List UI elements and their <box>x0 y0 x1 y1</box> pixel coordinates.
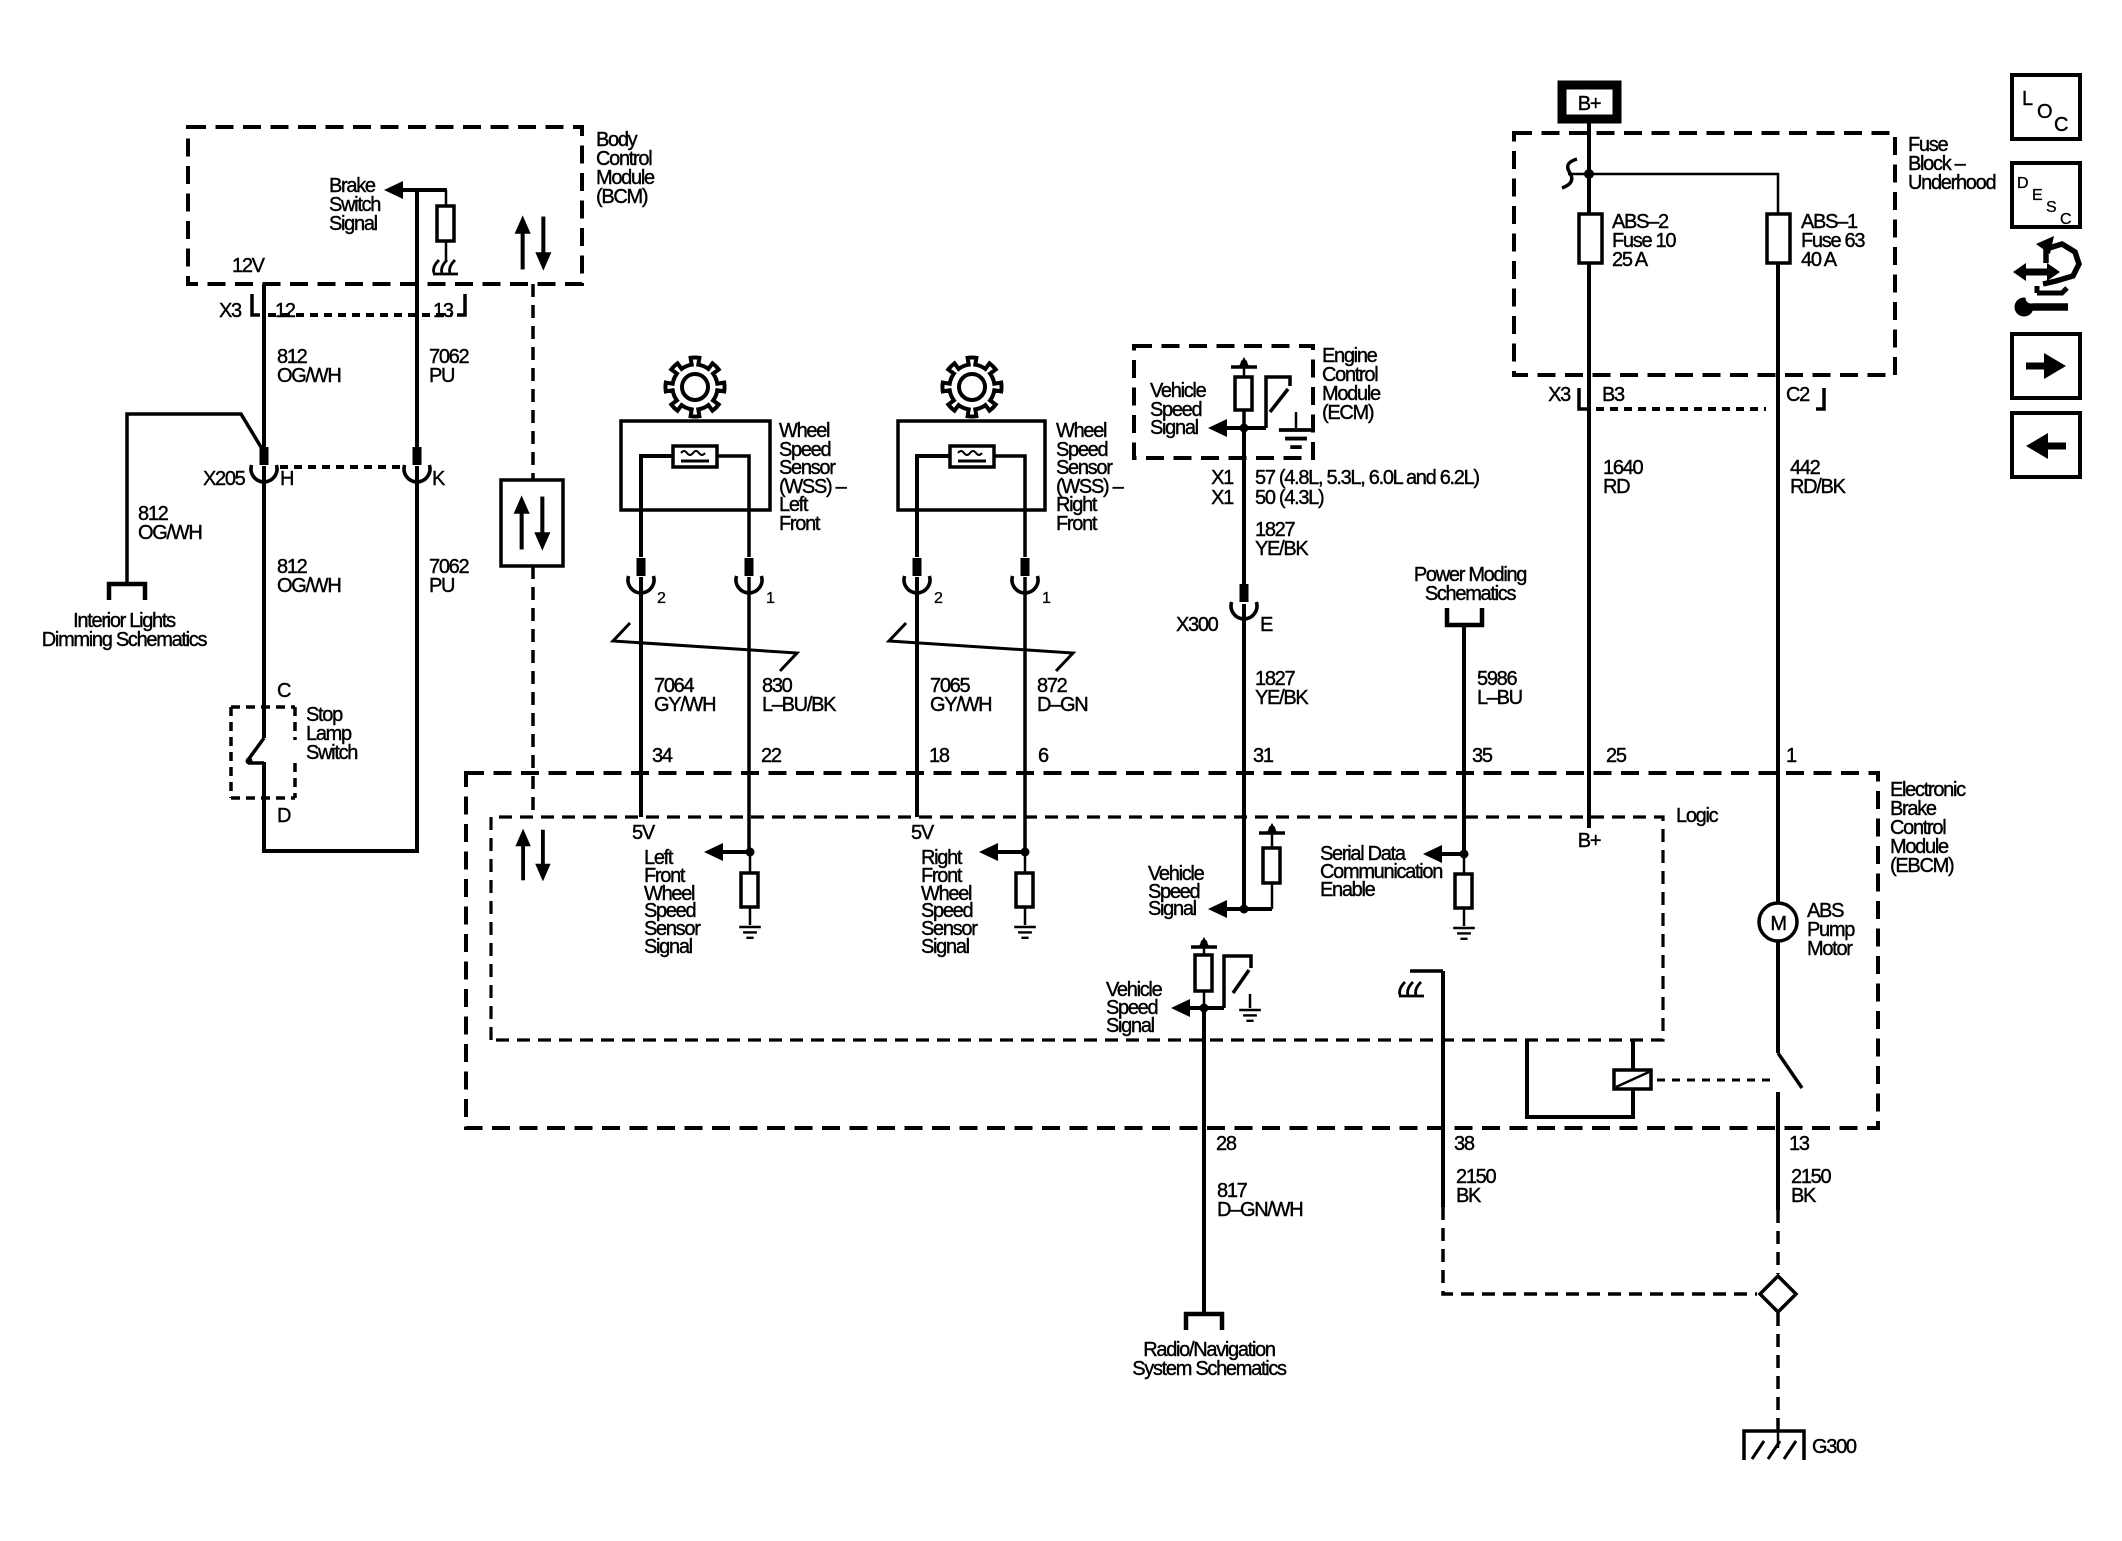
wire ECM output <box>1242 410 1246 428</box>
icon box arrow left <box>2012 413 2080 477</box>
svg-text:12V: 12V <box>232 255 266 277</box>
sensor box WSS right front <box>898 421 1045 510</box>
svg-text:M: M <box>1770 913 1786 935</box>
svg-text:PU: PU <box>429 575 454 597</box>
wire 5986 <box>1462 625 1466 854</box>
wire label 812 OG/WH upper <box>277 346 341 387</box>
logic box <box>491 817 1663 1040</box>
svg-text:Signal: Signal <box>644 936 693 958</box>
svg-text:Logic: Logic <box>1676 805 1719 827</box>
svg-text:Signal: Signal <box>1106 1015 1155 1037</box>
svg-text:(EBCM): (EBCM) <box>1890 855 1954 877</box>
wire 872 <box>1023 577 1027 852</box>
serial data box with arrows <box>501 480 563 566</box>
fuse block dashed box <box>1514 133 1895 375</box>
svg-text:C: C <box>277 680 291 702</box>
wire 1640 in fuse block <box>1587 263 1591 773</box>
supply tick pin31 <box>1259 823 1285 833</box>
label Engine Control Module (ECM) <box>1322 345 1381 424</box>
label Interior Lights Dimming Schematics <box>42 610 208 651</box>
wire label 7064 GY/WH <box>654 675 715 716</box>
arrow brake switch signal <box>384 181 403 199</box>
arrow RF wss signal <box>979 843 998 861</box>
connector WSS-RF pin 2 <box>904 558 930 593</box>
wire label 872 D-GN <box>1037 675 1087 716</box>
wire label 1827 YE/BK lower <box>1255 668 1309 709</box>
label Vehicle Speed Signal pin31 <box>1148 863 1205 920</box>
label Stop Lamp Switch <box>306 704 357 764</box>
switch box Stop Lamp Switch <box>231 707 295 798</box>
svg-text:13: 13 <box>1789 1133 1810 1155</box>
battery terminal B+ <box>1562 85 1617 119</box>
wire label 7065 GY/WH <box>930 675 991 716</box>
wire ECM junction <box>1222 426 1266 430</box>
svg-text:RD: RD <box>1603 476 1630 498</box>
module box BCM <box>188 127 582 284</box>
svg-text:BK: BK <box>1456 1185 1482 1207</box>
wire label 817 D-GN/WH <box>1217 1180 1302 1221</box>
wire WSS right internal U <box>917 456 950 557</box>
wire motor to switch <box>1776 773 1780 1053</box>
wire 442 in fuse block <box>1776 263 1780 773</box>
switch blade stop lamp <box>248 738 264 760</box>
ground LF wss <box>739 927 761 938</box>
wire interior lights branch <box>127 414 264 582</box>
svg-text:X3: X3 <box>219 300 242 322</box>
svg-text:2: 2 <box>934 590 943 607</box>
wire label 830 L-BU/BK <box>762 675 837 716</box>
svg-text:L: L <box>2022 88 2033 110</box>
ground ECM internal <box>1295 412 1298 428</box>
wire brake signal horizontal <box>400 188 447 192</box>
svg-text:Signal: Signal <box>1150 417 1199 439</box>
svg-text:L–BU/BK: L–BU/BK <box>762 694 837 716</box>
svg-text:34: 34 <box>652 745 673 767</box>
svg-text:X3: X3 <box>1548 384 1571 406</box>
label Left Front Wheel Speed Sensor Signal <box>644 847 701 958</box>
svg-text:6: 6 <box>1038 745 1049 767</box>
svg-text:K: K <box>432 468 446 490</box>
wire label 1640 RD <box>1603 457 1643 498</box>
svg-text:YE/BK: YE/BK <box>1255 538 1309 560</box>
label Power Moding Schematics <box>1414 564 1526 605</box>
label Vehicle Speed Signal ECM <box>1150 380 1207 439</box>
svg-text:(BCM): (BCM) <box>596 186 648 208</box>
label Brake Switch Signal <box>329 175 380 235</box>
wire label 7062 PU mid <box>429 556 469 597</box>
svg-text:50 (4.3L): 50 (4.3L) <box>1255 487 1324 509</box>
wire dashed BCM serial data <box>531 284 535 480</box>
svg-text:GY/WH: GY/WH <box>654 694 715 716</box>
resistor LF wss <box>749 852 752 873</box>
wire junction serial data <box>1442 852 1464 856</box>
wire dashed 2150 pin38 lower <box>1443 1207 1757 1294</box>
resistor RF wss <box>1024 852 1027 873</box>
ground G300 <box>1744 1431 1804 1460</box>
arrow serial data <box>1423 845 1442 863</box>
wire BCM pin13 vertical <box>415 188 419 449</box>
wire B+ feed <box>1587 123 1591 214</box>
svg-text:OG/WH: OG/WH <box>277 575 341 597</box>
connector WSS-LF pin 1 <box>736 558 762 593</box>
svg-text:Signal: Signal <box>921 936 970 958</box>
svg-text:12: 12 <box>275 300 296 322</box>
offpage bracket power moding <box>1447 608 1482 625</box>
icon box DESC <box>2012 163 2080 227</box>
wire label 2150 BK left <box>1456 1166 1496 1207</box>
icon swap and wrench <box>2013 236 2079 317</box>
svg-text:L–BU: L–BU <box>1477 687 1522 709</box>
wire 1827 upper <box>1242 458 1246 584</box>
svg-text:B3: B3 <box>1602 384 1625 406</box>
svg-text:25 A: 25 A <box>1612 249 1649 271</box>
resistor serial data <box>1463 854 1466 874</box>
ground BCM internal <box>433 260 458 274</box>
svg-text:Dimming Schematics: Dimming Schematics <box>42 629 208 651</box>
wire 7065 <box>915 577 919 817</box>
svg-text:PU: PU <box>429 365 454 387</box>
svg-text:D: D <box>277 805 291 827</box>
label Body Control Module (BCM) <box>596 129 655 208</box>
svg-text:OG/WH: OG/WH <box>277 365 341 387</box>
resistor BCM pulldown <box>445 190 448 206</box>
wire 1827 lower <box>1242 604 1246 909</box>
module box EBCM <box>466 773 1878 1128</box>
wire label 7062 PU upper <box>429 346 469 387</box>
svg-text:5V: 5V <box>911 822 935 844</box>
svg-text:5V: 5V <box>632 822 656 844</box>
svg-text:Front: Front <box>779 513 821 535</box>
relay coil EBCM <box>1527 1040 1633 1117</box>
wire label 812 OG/WH mid <box>277 556 341 597</box>
label Wheel Speed Sensor (WSS) Right Front <box>1056 420 1125 535</box>
svg-text:Motor: Motor <box>1807 938 1853 960</box>
svg-text:O: O <box>2037 101 2052 123</box>
wire junction pin31 <box>1222 907 1272 911</box>
svg-text:Switch: Switch <box>306 742 357 764</box>
svg-text:X205: X205 <box>203 468 246 490</box>
svg-text:RD/BK: RD/BK <box>1790 476 1847 498</box>
svg-text:H: H <box>280 468 293 490</box>
icon box arrow right <box>2012 334 2080 398</box>
svg-text:1: 1 <box>1042 590 1051 607</box>
svg-text:System Schematics: System Schematics <box>1132 1358 1287 1380</box>
offpage bracket interior lights <box>109 584 145 600</box>
svg-text:G300: G300 <box>1812 1436 1857 1458</box>
wire label 1827 YE/BK upper <box>1255 519 1309 560</box>
transistor pin28 <box>1224 956 1251 1008</box>
junction dot B+ bus <box>1584 169 1594 179</box>
wire bus to ABS-1 <box>1589 174 1778 214</box>
current loop symbol <box>1562 159 1577 188</box>
label Wheel Speed Sensor (WSS) Left Front <box>779 420 848 535</box>
svg-text:1: 1 <box>1786 745 1797 767</box>
svg-text:C: C <box>2060 211 2071 228</box>
svg-text:D–GN/WH: D–GN/WH <box>1217 1199 1302 1221</box>
sensor element WSS right <box>950 446 994 467</box>
offpage bracket radio navigation <box>1186 1314 1222 1330</box>
svg-text:D–GN: D–GN <box>1037 694 1087 716</box>
wire 2150 pin13 <box>1776 1092 1780 1210</box>
connector X300 E <box>1231 584 1257 619</box>
svg-text:C: C <box>2054 114 2068 136</box>
svg-text:Underhood: Underhood <box>1908 172 1995 194</box>
wire WSS left internal U <box>641 456 673 557</box>
svg-text:13: 13 <box>433 300 454 322</box>
transistor ECM VSS <box>1266 377 1290 428</box>
ground flag EBCM <box>1410 969 1443 973</box>
label Serial Data Communication Enable <box>1320 843 1442 901</box>
wire dashed serial to EBCM <box>531 566 535 817</box>
wire label 5986 L-BU <box>1477 668 1522 709</box>
wire 812 to stop lamp switch <box>262 466 266 738</box>
svg-text:Enable: Enable <box>1320 879 1376 901</box>
wire 2150 pin38 <box>1441 971 1445 1207</box>
arrow vehicle speed signal pin28 <box>1171 999 1190 1017</box>
svg-text:31: 31 <box>1253 745 1274 767</box>
module box ECM <box>1134 346 1313 458</box>
resistor ECM VSS <box>1243 367 1246 377</box>
supply tick ECM <box>1231 357 1257 367</box>
sensor box WSS left front <box>621 421 770 510</box>
gear wheel left <box>665 357 724 416</box>
svg-text:18: 18 <box>929 745 950 767</box>
svg-text:OG/WH: OG/WH <box>138 522 202 544</box>
arrow LF wss signal <box>704 843 723 861</box>
wire label 2150 BK right <box>1791 1166 1831 1207</box>
svg-text:X1: X1 <box>1211 487 1234 509</box>
wire 830 <box>747 577 751 852</box>
svg-text:X300: X300 <box>1176 614 1219 636</box>
wire junction RF <box>998 850 1025 854</box>
svg-text:D: D <box>2017 175 2028 192</box>
motor ABS pump <box>1759 903 1797 941</box>
svg-text:Front: Front <box>1056 513 1098 535</box>
ground RF wss <box>1014 927 1036 938</box>
svg-text:38: 38 <box>1454 1133 1475 1155</box>
svg-text:B+: B+ <box>1578 830 1601 852</box>
wire 1640 end B+ <box>1587 773 1591 828</box>
arrow vehicle speed signal ECM <box>1208 419 1227 437</box>
connector WSS-RF pin 1 <box>1012 558 1038 593</box>
svg-text:BK: BK <box>1791 1185 1817 1207</box>
connector X205 dotted line <box>280 465 402 469</box>
wire stop lamp D to 7062 junction <box>264 466 417 851</box>
ground pin28 <box>1249 994 1252 1008</box>
resistor pin28 <box>1203 947 1206 955</box>
svg-text:40 A: 40 A <box>1801 249 1838 271</box>
connector X205 H <box>251 447 277 482</box>
wire junction pin28 <box>1190 1006 1224 1010</box>
wire label 812 OG/WH left branch <box>138 503 202 544</box>
label Electronic Brake Control Module (EBCM) <box>1890 779 1966 877</box>
switch blade relay <box>1778 1053 1802 1088</box>
svg-text:22: 22 <box>761 745 782 767</box>
label ABS Pump Motor <box>1807 900 1855 960</box>
splice diamond <box>1760 1276 1796 1312</box>
up-down arrows logic <box>515 829 550 882</box>
svg-text:2: 2 <box>657 590 666 607</box>
svg-text:E: E <box>2032 187 2042 204</box>
svg-text:GY/WH: GY/WH <box>930 694 991 716</box>
supply tick pin28 <box>1191 937 1217 947</box>
svg-text:57 (4.8L, 5.3L, 6.0L and 6.2L): 57 (4.8L, 5.3L, 6.0L and 6.2L) <box>1255 467 1479 489</box>
resistor pin31 <box>1271 833 1274 848</box>
label Vehicle Speed Signal pin28 <box>1106 979 1163 1037</box>
twisted pair marker right WSS <box>889 623 1073 671</box>
wire dashed to G300 <box>1776 1313 1780 1429</box>
fuse ABS-1 <box>1767 214 1790 263</box>
wire label 442 RD/BK <box>1790 457 1847 498</box>
pin labels X1 57/50 <box>1211 467 1479 509</box>
svg-text:1: 1 <box>766 590 775 607</box>
svg-text:35: 35 <box>1472 745 1493 767</box>
gear wheel right <box>942 357 1001 416</box>
connector WSS-LF pin 2 <box>628 558 654 593</box>
svg-text:28: 28 <box>1216 1133 1237 1155</box>
wire 817 out <box>1202 1008 1206 1314</box>
svg-text:(ECM): (ECM) <box>1322 402 1374 424</box>
svg-text:YE/BK: YE/BK <box>1255 687 1309 709</box>
wire junction LF <box>723 850 750 854</box>
svg-text:X1: X1 <box>1211 467 1234 489</box>
label Fuse Block - Underhood <box>1908 134 1995 194</box>
connector X205 K <box>404 447 430 482</box>
fuse ABS-2 <box>1579 214 1602 263</box>
relay linkage dashed <box>1657 1079 1772 1082</box>
svg-text:S: S <box>2046 199 2056 216</box>
sensor element WSS left <box>673 446 717 467</box>
icon box LOC <box>2012 75 2080 139</box>
svg-text:E: E <box>1260 614 1273 636</box>
svg-text:Signal: Signal <box>1148 898 1197 920</box>
ground serial data <box>1453 928 1475 939</box>
arrow vehicle speed signal pin31 <box>1208 900 1227 918</box>
svg-text:Signal: Signal <box>329 213 378 235</box>
svg-text:C2: C2 <box>1786 384 1810 406</box>
svg-text:Schematics: Schematics <box>1425 583 1517 605</box>
svg-text:25: 25 <box>1606 745 1627 767</box>
wire BCM pin12 vertical <box>262 284 266 449</box>
wire dashed 2150 pin13 <box>1776 1210 1780 1274</box>
twisted pair marker left WSS <box>613 623 797 671</box>
svg-text:B+: B+ <box>1578 93 1601 115</box>
label Right Front Wheel Speed Sensor Signal <box>921 847 978 958</box>
wire 7064 <box>639 577 643 817</box>
label Radio/Navigation System Schematics <box>1132 1339 1287 1380</box>
up-down arrows BCM <box>515 215 552 270</box>
